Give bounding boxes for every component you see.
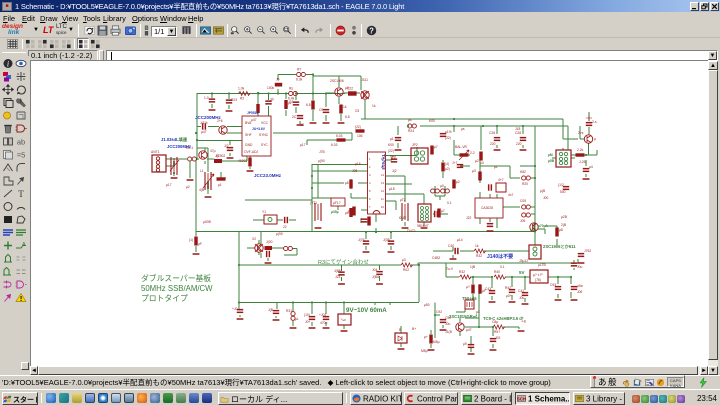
junction dots	[211, 92, 213, 94]
resistor R40	[429, 335, 432, 344]
wire power caps	[293, 303, 401, 348]
resistor R26	[522, 213, 531, 217]
wire 2SC1906	[326, 76, 339, 104]
svg-text:J0u: J0u	[577, 265, 582, 269]
svg-text:J1.03±4L填連: J1.03±4L填連	[161, 136, 188, 143]
svg-text:GND: GND	[245, 143, 253, 147]
toolbar row 1	[0, 23, 720, 38]
capacitor C44	[440, 133, 446, 137]
svg-text:JCC200MHz: JCC200MHz	[195, 115, 222, 120]
svg-text:µ1: µ1	[390, 137, 394, 141]
resistor R36	[471, 285, 474, 294]
svg-text:µs: µs	[461, 127, 465, 131]
capacitor C20	[578, 253, 584, 257]
resistor R17	[367, 217, 370, 226]
capacitor C4	[209, 98, 215, 102]
wire caps under rail y126	[398, 126, 523, 148]
capacitor C15	[266, 251, 270, 257]
svg-text:µ5B: µ5B	[548, 159, 555, 163]
capacitor 100k top	[275, 83, 282, 87]
transformer T3	[465, 300, 474, 309]
svg-text:VCC: VCC	[261, 121, 269, 125]
svg-text:C28: C28	[515, 131, 521, 135]
transistor Q2 mixer	[335, 88, 343, 96]
svg-text:K82: K82	[520, 170, 526, 174]
svg-text:B: B	[399, 328, 402, 332]
connector J2	[411, 148, 428, 164]
svg-text:2C: 2C	[292, 115, 297, 119]
svg-text:JU+3.6V: JU+3.6V	[252, 127, 266, 131]
svg-text:J0u: J0u	[445, 322, 450, 326]
svg-text:Tu-V: Tu-V	[446, 267, 454, 271]
ground C20	[578, 262, 585, 264]
resistor R33 y265	[401, 263, 413, 267]
resistor R5	[284, 100, 287, 109]
resistor R15b	[352, 207, 355, 216]
svg-text:1k: 1k	[343, 105, 347, 109]
resistor R6	[217, 177, 226, 180]
ground C28	[520, 149, 527, 151]
ground C37	[522, 303, 529, 305]
svg-text:(22): (22)	[388, 149, 394, 153]
svg-text:J(2: J(2	[224, 144, 229, 148]
svg-text:2>s: 2>s	[578, 131, 584, 135]
svg-text:500: 500	[560, 190, 566, 194]
capacitor C7	[293, 101, 299, 105]
svg-text:µM: µM	[548, 153, 553, 157]
svg-text:C7: C7	[289, 100, 293, 104]
ground C41	[323, 327, 330, 329]
svg-text:SHF: SHF	[245, 133, 252, 137]
svg-text:µ3: µ3	[472, 169, 476, 173]
resistor R41	[430, 146, 433, 155]
svg-text:R2: R2	[240, 97, 244, 101]
resistor R45	[441, 189, 450, 193]
svg-text:13: 13	[381, 181, 384, 185]
svg-text:µ: µ	[594, 137, 596, 141]
svg-text:µ3: µ3	[480, 161, 484, 165]
svg-text:µ16: µ16	[355, 162, 361, 166]
svg-text:J(76: J(76	[358, 238, 365, 242]
svg-text:J04: J04	[372, 268, 377, 272]
ground C31	[583, 178, 590, 180]
svg-text:JCC23.0MHz: JCC23.0MHz	[254, 173, 282, 178]
svg-text:CA3028: CA3028	[481, 206, 493, 210]
toolbar row 3: coordinate + command line	[0, 49, 720, 61]
svg-text:6.8: 6.8	[306, 103, 311, 107]
transformer T2	[402, 203, 408, 221]
capacitor C2 in	[214, 159, 222, 163]
svg-text:6.03: 6.03	[331, 143, 338, 147]
wire bal-vr	[454, 126, 481, 155]
svg-text:0.1: 0.1	[447, 201, 452, 205]
svg-text:C5: C5	[355, 109, 359, 113]
svg-text:µF: µF	[198, 242, 202, 246]
resistor R38	[493, 325, 505, 329]
svg-text:µ9a: µ9a	[577, 284, 583, 288]
resistor R10	[339, 105, 342, 114]
svg-text:C92: C92	[445, 316, 451, 320]
svg-text:K00: K00	[388, 143, 394, 147]
capacitor C42	[440, 319, 446, 323]
svg-text:µ18: µ18	[389, 187, 395, 191]
svg-text:C40: C40	[448, 244, 454, 248]
svg-text:µ+: µ+	[424, 335, 428, 339]
crystal Y1	[264, 215, 277, 224]
wire rail y126	[420, 126, 568, 150]
ground C50	[227, 157, 234, 159]
svg-text:µT2: µT2	[400, 198, 406, 202]
capacitor C9	[323, 109, 329, 113]
transistor Q5	[456, 323, 464, 331]
ground C4	[209, 109, 216, 111]
svg-text:µ8: µ8	[345, 181, 349, 185]
ground L1	[205, 196, 212, 198]
svg-text:9B16VT: 9B16VT	[417, 224, 429, 228]
transformer T1	[315, 203, 321, 221]
ground C13	[363, 251, 370, 253]
wire power rail y302	[239, 302, 419, 304]
resistor R27	[555, 228, 558, 237]
transistor Q3	[255, 244, 263, 252]
svg-text:J-26: J-26	[579, 160, 586, 164]
svg-text:14: 14	[381, 173, 384, 177]
wire xtal2/ca3028 top	[460, 160, 535, 198]
svg-text:R31: R31	[286, 309, 292, 313]
status bar	[0, 375, 720, 389]
svg-text:J5: J5	[276, 78, 280, 82]
ground C33	[555, 299, 562, 301]
svg-text:A: A	[22, 242, 26, 248]
svg-text:J1(B: J1(B	[445, 330, 453, 334]
wire left long vertical x196	[195, 160, 197, 232]
ground C36	[509, 301, 516, 303]
wire J311	[313, 76, 365, 119]
svg-text:J0+: J0+	[305, 320, 310, 324]
svg-text:µ70µA: µ70µA	[538, 224, 548, 228]
diode box D1	[395, 333, 407, 343]
svg-text:+J01: +J01	[319, 313, 326, 317]
ground Q8	[187, 179, 194, 181]
ground C40	[309, 327, 316, 329]
tray lightning icon	[698, 377, 709, 388]
svg-text:6.3k: 6.3k	[296, 78, 303, 82]
capacitor C10 inline	[348, 91, 357, 95]
svg-text:J00: J00	[543, 196, 548, 200]
capacitor C39	[490, 338, 496, 342]
svg-text:12: 12	[381, 189, 384, 193]
svg-text:50MHz SSB/AM/CW: 50MHz SSB/AM/CW	[141, 284, 213, 293]
svg-text:J311: J311	[361, 78, 368, 82]
ground U5	[341, 330, 348, 332]
svg-text:JP5512: JP5512	[247, 111, 259, 115]
svg-text:µ4: µ4	[589, 165, 593, 169]
capacitor C4u	[391, 158, 397, 162]
svg-text:µ17: µ17	[166, 183, 172, 187]
capacitor C36	[509, 289, 515, 293]
wire caps under y277	[473, 277, 525, 302]
svg-text:µ14: µ14	[457, 238, 463, 242]
wire under IC2	[366, 214, 391, 250]
svg-text:1.0: 1.0	[204, 96, 209, 100]
svg-text:?: ?	[369, 26, 374, 35]
svg-text:J140は不要: J140は不要	[487, 253, 513, 260]
svg-text:JP2: JP2	[412, 143, 418, 147]
svg-text:2-s: 2-s	[592, 120, 597, 124]
svg-text:0.1: 0.1	[500, 265, 505, 269]
regulator U4	[530, 270, 548, 283]
svg-text:(1/2: (1/2	[558, 183, 564, 187]
wire stubs top-left caps	[212, 94, 286, 117]
svg-text:C93: C93	[550, 283, 556, 287]
svg-text:µ2: µ2	[475, 159, 479, 163]
left tool palette	[0, 56, 30, 374]
capacitor C41 pol	[323, 316, 329, 320]
wire q2 area	[247, 240, 297, 261]
ground R9	[310, 122, 317, 124]
svg-text:µ7: µ7	[441, 209, 445, 213]
svg-text:ab: ab	[17, 137, 25, 146]
ground R38	[518, 330, 525, 332]
svg-text:J23: J23	[335, 275, 340, 279]
svg-text:µ(90: µ(90	[276, 232, 283, 236]
svg-text:µ47: µ47	[251, 118, 257, 122]
resistor R24	[522, 176, 531, 180]
svg-text:5V: 5V	[519, 270, 525, 275]
ground C8	[297, 124, 304, 126]
svg-text:C8µ: C8µ	[492, 320, 498, 324]
resistor R42	[284, 246, 293, 250]
svg-text:J(BA: J(BA	[372, 275, 380, 279]
ground R40	[428, 349, 435, 351]
ground C22	[450, 258, 457, 260]
wire audio bottom	[456, 285, 519, 352]
regulator U5	[338, 314, 351, 325]
wire right chain x586	[571, 112, 597, 155]
svg-text:µ1: µ1	[494, 165, 498, 169]
ground C46	[376, 283, 383, 285]
svg-text:2.2k: 2.2k	[577, 148, 584, 152]
svg-text:C26: C26	[489, 131, 495, 135]
svg-text:µ3: µ3	[476, 310, 480, 314]
capacitor C37	[522, 292, 528, 296]
svg-text:µ1%: µ1%	[445, 130, 452, 134]
svg-text:(78): (78)	[535, 278, 541, 282]
svg-text:2C: 2C	[300, 123, 305, 127]
resistor R23	[226, 99, 232, 103]
svg-text:µ17: µ17	[300, 143, 306, 147]
svg-text:M5µ: M5µ	[421, 349, 428, 353]
svg-text:J(3B: J(3B	[383, 238, 391, 242]
svg-text:J7B: J7B	[319, 150, 325, 154]
svg-text:µL: µL	[295, 317, 299, 321]
resistor R34 y277	[460, 275, 472, 279]
capacitor C46	[376, 271, 382, 275]
svg-text:220: 220	[490, 142, 496, 146]
resistor R44	[431, 189, 440, 193]
svg-text:µ8: µ8	[559, 228, 563, 232]
wire left connector area	[166, 148, 247, 178]
svg-text:X2: X2	[252, 237, 256, 241]
capacitor C18	[457, 164, 463, 168]
EAGLE window title bar	[0, 0, 720, 12]
ground R23	[226, 110, 233, 112]
svg-text:J18: J18	[515, 127, 520, 131]
svg-text:µ35µ: µ35µ	[331, 210, 339, 214]
svg-text:100k: 100k	[267, 86, 275, 90]
wire mid stubs under y93	[296, 93, 341, 124]
toolbar row 2	[0, 38, 720, 49]
inductor L0	[171, 157, 177, 175]
capacitor C22 gain row	[454, 248, 458, 254]
svg-text:µ50: µ50	[424, 303, 430, 307]
IME bar	[590, 375, 685, 388]
ic U2 TA7613	[368, 152, 386, 214]
vertical scrollbar	[708, 61, 718, 375]
capacitor C31	[583, 168, 589, 172]
resistor R47	[248, 158, 251, 167]
svg-text:µ2B: µ2B	[561, 215, 568, 219]
resistor R21	[478, 172, 481, 181]
svg-text:J0u: J0u	[519, 296, 524, 300]
capacitor C30 right chain	[586, 122, 592, 126]
svg-text:4x7: 4x7	[508, 193, 513, 197]
svg-text:K00: K00	[429, 119, 435, 123]
transistor J311	[361, 91, 369, 99]
horizontal scrollbar	[30, 366, 708, 375]
ground R10	[338, 122, 345, 124]
svg-text:µF1?: µF1?	[333, 201, 341, 205]
svg-text:µ2: µ2	[456, 180, 460, 184]
svg-text:µ0+: µ0+	[506, 294, 512, 298]
wire osc coil area	[197, 148, 226, 194]
svg-text:6.8: 6.8	[345, 115, 350, 119]
capacitor C28	[520, 137, 526, 141]
ground C26	[494, 149, 501, 151]
svg-text:41902: 41902	[238, 159, 247, 163]
ground C9	[323, 122, 330, 124]
svg-text:(VT1: (VT1	[310, 201, 317, 205]
capacitor C38	[468, 344, 474, 348]
svg-text:T: T	[18, 189, 24, 199]
svg-text:µ00B: µ00B	[203, 220, 212, 224]
svg-text:J22: J22	[466, 216, 471, 220]
svg-text:R20: R20	[522, 182, 528, 186]
resistor R43	[441, 163, 444, 172]
svg-text:R02: R02	[403, 268, 409, 272]
svg-text:i: i	[7, 60, 9, 69]
ground C42	[440, 329, 447, 331]
capacitor C8	[297, 115, 303, 119]
capacitor C33	[555, 286, 561, 290]
svg-text:2SC1906: 2SC1906	[330, 79, 344, 83]
svg-text:1k: 1k	[475, 244, 479, 248]
resistor R16	[349, 208, 352, 217]
resistor R20	[265, 246, 273, 250]
capacitor C45	[338, 271, 344, 275]
ground D1	[398, 348, 405, 350]
svg-text:SYNC: SYNC	[259, 133, 269, 137]
svg-text:Y1: Y1	[262, 210, 266, 214]
transistor Q8 input	[199, 151, 207, 159]
ground C45	[338, 283, 345, 285]
resistor R19 under rail	[194, 237, 197, 246]
wire top right rail y119	[361, 119, 578, 139]
resistor R37	[478, 285, 481, 294]
wire x312 column	[311, 164, 313, 232]
svg-text:R23: R23	[231, 98, 237, 102]
wire ca3028 bottom	[480, 176, 535, 228]
svg-text:µs: µs	[408, 118, 412, 122]
wire IC2 left pins	[312, 165, 367, 224]
svg-text:16: 16	[381, 157, 384, 161]
svg-text:1.0k: 1.0k	[238, 87, 245, 91]
svg-text:9V~10V 60mA: 9V~10V 60mA	[346, 307, 387, 314]
svg-text:J02: J02	[495, 336, 500, 340]
ground R47	[247, 170, 254, 172]
svg-text:M5µ: M5µ	[433, 340, 440, 344]
svg-text:2SC1815GR㎡: 2SC1815GR㎡	[449, 313, 478, 319]
svg-text:C92: C92	[436, 310, 442, 314]
svg-text:プロトタイプ: プロトタイプ	[141, 294, 188, 303]
capacitor C16	[284, 217, 288, 223]
svg-text:R42: R42	[505, 286, 511, 290]
svg-text:R24: R24	[408, 129, 414, 133]
svg-text:J(00: J(00	[266, 240, 273, 244]
resistor R46	[452, 180, 455, 189]
svg-text:470u: 470u	[320, 321, 328, 325]
svg-text:J+7: J+7	[452, 161, 458, 165]
ground T1	[315, 227, 322, 229]
wire IC1 bottom right	[258, 93, 352, 145]
svg-text:C41: C41	[518, 289, 524, 293]
svg-text:C43: C43	[485, 287, 491, 291]
ground C19	[487, 230, 494, 232]
wire IC2 right pins	[386, 147, 448, 226]
svg-text:µ(90: µ(90	[318, 159, 325, 163]
svg-text:J(8B: J(8B	[334, 269, 342, 273]
svg-text:R2-1: R2-1	[186, 146, 193, 150]
resistor R1	[188, 157, 197, 161]
wire y265 row	[239, 265, 419, 302]
resistor R18	[437, 209, 440, 218]
svg-text:C22: C22	[347, 87, 353, 91]
connector X1	[152, 155, 166, 172]
svg-text:J06: J06	[577, 290, 582, 294]
wire res under rail left	[195, 232, 197, 253]
svg-text:L1: L1	[200, 169, 204, 173]
svg-text:J(2: J(2	[392, 169, 397, 173]
svg-text:µ9: µ9	[463, 342, 467, 346]
ground T2	[402, 227, 409, 229]
op-amp U1 JP5512	[242, 116, 271, 156]
svg-text:µ?: µ?	[466, 285, 470, 289]
svg-text:4(B: 4(B	[199, 188, 205, 192]
capacitor C32	[563, 186, 569, 190]
transistor Q1	[219, 126, 227, 134]
resistor R13 on rail	[408, 124, 417, 128]
resistor 2.2k	[576, 153, 585, 156]
capacitor C26	[494, 137, 500, 141]
svg-text:R32: R32	[476, 254, 482, 258]
svg-text:J-g: J-g	[521, 319, 526, 323]
resistor R12	[337, 138, 346, 141]
wire IC1 left pins	[197, 127, 250, 170]
capacitor C11	[395, 137, 401, 141]
svg-text:10: 10	[381, 205, 384, 209]
inductor L1 trim	[205, 172, 211, 190]
ground C15	[265, 262, 272, 264]
